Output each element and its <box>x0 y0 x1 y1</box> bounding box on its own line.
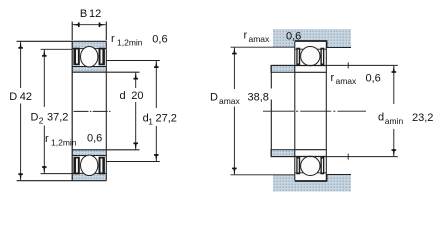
svg-text:r: r <box>111 33 115 45</box>
svg-text:r: r <box>244 30 248 42</box>
svg-text:r: r <box>331 72 335 84</box>
svg-text:1: 1 <box>148 117 153 127</box>
svg-text:37,2: 37,2 <box>47 112 68 124</box>
svg-text:amax: amax <box>336 76 358 86</box>
svg-text:D: D <box>210 91 218 103</box>
svg-text:d: d <box>120 90 126 102</box>
svg-text:0,6: 0,6 <box>286 31 301 43</box>
svg-text:42: 42 <box>20 91 32 103</box>
svg-text:1,2min: 1,2min <box>117 37 143 47</box>
svg-text:D: D <box>9 91 17 103</box>
svg-text:d: d <box>378 112 384 124</box>
svg-text:12: 12 <box>89 8 101 20</box>
svg-text:27,2: 27,2 <box>156 113 177 125</box>
svg-text:amax: amax <box>219 96 241 106</box>
svg-text:amax: amax <box>249 34 271 44</box>
svg-text:1,2min: 1,2min <box>51 138 77 148</box>
svg-text:0,6: 0,6 <box>87 133 102 145</box>
svg-text:amin: amin <box>385 116 404 126</box>
svg-text:2: 2 <box>39 116 44 126</box>
svg-text:38,8: 38,8 <box>248 91 269 103</box>
svg-text:r: r <box>45 133 49 145</box>
svg-text:0,6: 0,6 <box>366 73 381 85</box>
svg-text:20: 20 <box>131 90 143 102</box>
svg-text:D: D <box>31 112 39 124</box>
svg-text:23,2: 23,2 <box>412 112 433 124</box>
svg-text:0,6: 0,6 <box>152 34 167 46</box>
svg-text:B: B <box>80 8 87 20</box>
